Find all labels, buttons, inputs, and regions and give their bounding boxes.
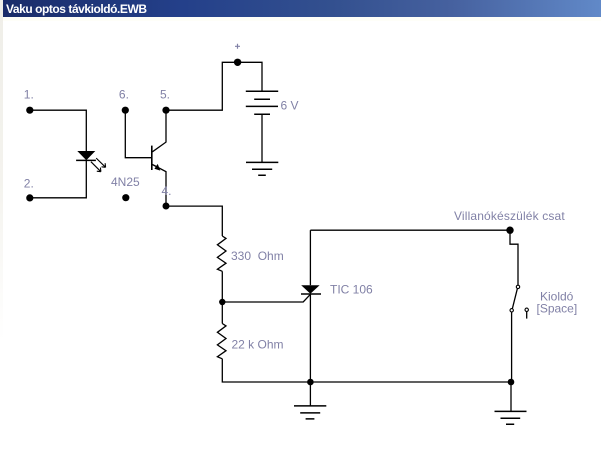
svg-text:4N25: 4N25 bbox=[111, 175, 140, 189]
svg-text:[Space]: [Space] bbox=[537, 301, 578, 315]
svg-text:6 V: 6 V bbox=[281, 99, 299, 113]
svg-text:2.: 2. bbox=[24, 176, 34, 190]
svg-text:6.: 6. bbox=[119, 88, 129, 102]
svg-text:4.: 4. bbox=[162, 184, 172, 198]
svg-text:1.: 1. bbox=[24, 88, 34, 102]
svg-text:22 k Ohm: 22 k Ohm bbox=[232, 338, 284, 352]
svg-text:5.: 5. bbox=[160, 88, 170, 102]
svg-text:330 Ohm: 330 Ohm bbox=[231, 249, 284, 263]
svg-text:Villanókészülék csat: Villanókészülék csat bbox=[454, 209, 565, 223]
svg-text:TIC 106: TIC 106 bbox=[330, 283, 373, 297]
